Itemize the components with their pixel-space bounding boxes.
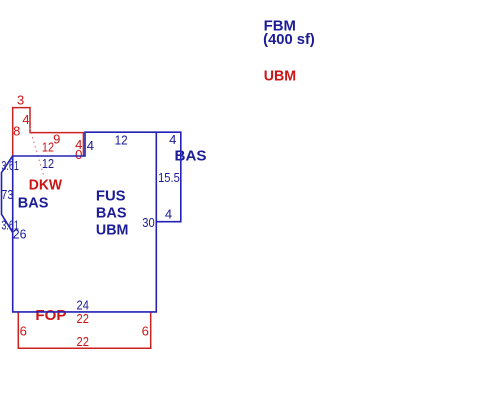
svg-text:BAS: BAS bbox=[96, 205, 127, 221]
svg-text:6: 6 bbox=[20, 323, 27, 338]
svg-text:22: 22 bbox=[77, 334, 89, 349]
svg-text:4: 4 bbox=[22, 112, 29, 127]
svg-text:30: 30 bbox=[142, 215, 154, 230]
svg-text:15.5: 15.5 bbox=[158, 170, 180, 185]
svg-text:(400 sf): (400 sf) bbox=[263, 32, 315, 48]
svg-text:22: 22 bbox=[77, 311, 89, 326]
svg-text:FUS: FUS bbox=[96, 188, 126, 204]
svg-text:0: 0 bbox=[75, 147, 82, 162]
svg-text:UBM: UBM bbox=[96, 222, 129, 238]
svg-text:12: 12 bbox=[115, 133, 128, 148]
svg-text:12: 12 bbox=[42, 140, 54, 155]
svg-text:24: 24 bbox=[77, 298, 89, 313]
svg-text:73: 73 bbox=[1, 187, 13, 202]
svg-text:BAS: BAS bbox=[175, 148, 207, 164]
svg-text:DKW: DKW bbox=[29, 177, 63, 193]
svg-text:9: 9 bbox=[53, 131, 60, 146]
svg-text:BAS: BAS bbox=[18, 195, 49, 211]
svg-text:3: 3 bbox=[17, 93, 24, 108]
svg-text:UBM: UBM bbox=[264, 69, 296, 85]
svg-text:4: 4 bbox=[87, 138, 94, 153]
svg-text:6: 6 bbox=[142, 324, 149, 339]
svg-text:4: 4 bbox=[169, 132, 176, 147]
svg-text:8: 8 bbox=[13, 124, 20, 139]
svg-text:4: 4 bbox=[165, 207, 172, 222]
svg-text:26: 26 bbox=[13, 227, 27, 242]
svg-text:FOP: FOP bbox=[35, 308, 66, 324]
svg-text:12: 12 bbox=[42, 156, 54, 171]
